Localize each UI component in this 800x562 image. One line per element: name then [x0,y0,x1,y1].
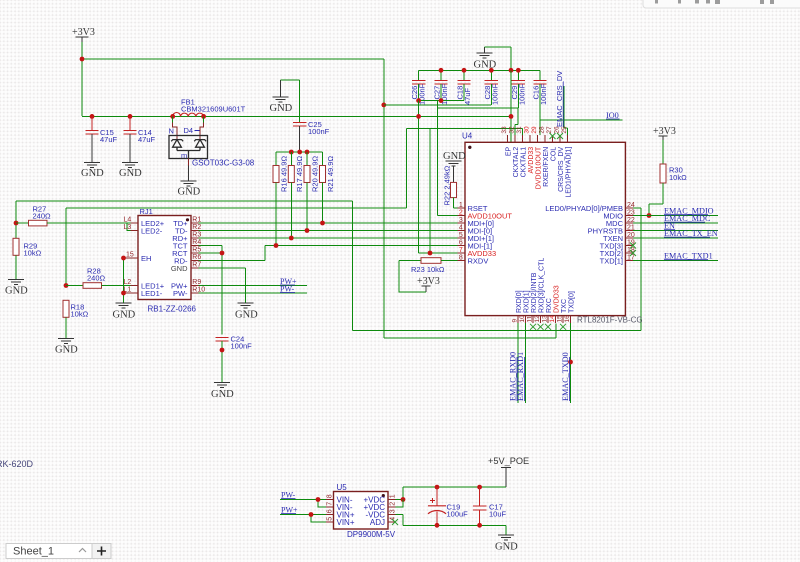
ground GND under RJ1 left [113,303,136,321]
U4 pin 7 AVDD33 [458,247,497,258]
svg-text:47uF: 47uF [100,135,118,144]
node junction cap rail x=511 [509,68,514,73]
svg-text:25: 25 [561,126,568,134]
svg-text:R7: R7 [192,262,201,269]
wire RCT row [199,252,223,254]
U5 pin 1 +VDC [363,494,396,504]
svg-text:EP: EP [505,146,512,156]
node junction C17 bottom [477,523,482,528]
svg-text:32: 32 [509,126,516,134]
node junction C25 bottom [297,150,302,155]
svg-text:11: 11 [527,315,534,322]
U5 pin 6 VIN+ [326,509,355,519]
capacitor C17 10uF [473,487,507,525]
wire column C26 to AVDD33 row [419,101,430,253]
svg-text:CBM321609U601T: CBM321609U601T [181,105,246,114]
svg-text:RXER/FXEN: RXER/FXEN [543,147,550,187]
wire C16 bottom to IO0 line [539,84,541,135]
wire EN row [633,230,718,232]
capacitor C29 [510,70,527,105]
svg-text:5: 5 [327,517,334,521]
svg-text:RXC: RXC [546,298,553,313]
net label EMAC_CRS_DV [555,71,564,127]
U4 pin 6 MDI-[1] [458,239,493,250]
ground GND under C14 [119,163,142,180]
svg-text:CKXTAL1: CKXTAL1 [520,147,527,178]
svg-text:29: 29 [531,126,538,134]
svg-text:U4: U4 [462,132,473,141]
svg-text:8: 8 [459,254,463,261]
svg-text:1: 1 [389,494,396,498]
wire EMAC_MDIO row [633,215,718,217]
svg-text:+5V_POE: +5V_POE [488,456,529,466]
node junction R30 on MDIO [647,213,652,218]
svg-text:6: 6 [459,239,463,246]
wire EMAC_TX_EN row [633,237,718,239]
ground GND under R7 [235,303,258,321]
svg-text:240Ω: 240Ω [87,274,106,283]
capacitor C16 [532,70,549,105]
node junction VIN+ [309,512,314,517]
U4 pin 2 AVDD10OUT [458,209,513,220]
svg-text:GND: GND [171,264,188,273]
svg-text:R3: R3 [192,232,201,239]
node junction cap rail x=441 [439,68,444,73]
svg-text:COL: COL [550,147,557,162]
wire R7 to ground [199,268,246,303]
svg-text:R9: R9 [192,279,201,286]
svg-text:1: 1 [459,202,463,209]
U4 pin 20 TXEN [603,232,635,243]
svg-text:DVDD10OUT: DVDD10OUT [535,146,542,189]
node junction cap rail x=491.3 [489,68,494,73]
net label PW- [280,285,295,294]
capacitor C19 100uF polar [428,487,468,525]
wire FB1 right down to D4 [203,116,205,122]
svg-text:RXD[3]/CLK_CTL: RXD[3]/CLK_CTL [538,258,545,313]
svg-text:R6: R6 [192,254,201,261]
svg-text:47uF: 47uF [138,135,156,144]
svg-text:RJ1: RJ1 [140,207,153,216]
resistor R17 49.9 ohm [288,152,304,238]
wire VIN+ tie [311,515,326,523]
svg-text:14: 14 [549,315,556,323]
svg-text:CRS/CRS_DV: CRS/CRS_DV [558,146,565,191]
svg-text:7: 7 [459,247,463,254]
wire TCT to C24 column [199,246,223,335]
U5 pin 8 VIN- [326,494,353,504]
no-connect X pin26 CRS_DV [557,133,563,139]
wire pin32 drop [515,108,518,143]
svg-text:N: N [169,127,174,136]
capacitor C26 [410,70,427,105]
U4 pin 12 RXD[3]/CLK_CTL [534,258,545,323]
svg-text:7: 7 [327,502,334,506]
svg-text:GND: GND [178,187,201,198]
wire C28 bottom to AVDD feed [490,84,492,105]
resistor R21 49.9 ohm [320,152,336,223]
U4 pin 21 PHYRSTB [588,224,635,235]
toolbar panel top right [643,0,800,8]
svg-text:GND: GND [113,310,136,321]
RJ1 right pin R10 PW- [173,287,205,298]
svg-text:LED1-: LED1- [141,289,163,298]
svg-text:EMAC_RXD1: EMAC_RXD1 [516,352,525,401]
svg-text:100nF: 100nF [231,342,253,351]
wire AVDD feed y=104.9 [384,104,491,106]
resistor R16 49.9 ohm [273,152,289,246]
wire +VDC tie pin2 [396,500,404,508]
node junction pin1-2 tie [401,497,406,502]
U5 pin 5 VIN+ [326,517,355,527]
svg-text:CKXTAL2: CKXTAL2 [513,147,520,178]
U4 pin 25 LED1/PHYAD[1] [561,126,572,198]
no-connect X pin13 [545,324,551,330]
svg-text:DVDD33: DVDD33 [553,285,560,313]
wire TXD0 down [570,323,572,403]
wire LED1 long rail y=206.5 [66,208,556,338]
svg-text:4: 4 [459,224,463,231]
svg-text:Sheet_1: Sheet_1 [13,546,54,558]
svg-text:RXD[1]: RXD[1] [523,290,530,313]
RJ1 left pin L2 LED1+ [124,279,165,290]
node junction RCT C24 [220,251,225,256]
svg-text:13: 13 [542,315,549,323]
wire +VDC rail top [396,487,507,499]
resistor R27 240 ohm [14,201,131,238]
U4 pin 15 TXC [557,299,568,323]
no-connect X pin19 TXD3 [630,243,636,249]
svg-text:9: 9 [512,319,519,323]
svg-text:100uF: 100uF [447,510,469,519]
svg-text:RXDV: RXDV [468,256,489,265]
svg-text:12: 12 [534,315,541,323]
svg-text:RTL8201F-VB-CG: RTL8201F-VB-CG [577,316,643,325]
node junction AVDD feed [381,103,386,108]
net label EMAC_MDC [664,214,711,223]
svg-text:15: 15 [557,315,564,323]
svg-text:10kΩ: 10kΩ [669,173,687,182]
node junction R20 bottom on TD- [305,228,310,233]
svg-text:10kΩ: 10kΩ [24,249,42,258]
svg-text:16: 16 [564,315,571,323]
capacitor C28 [483,70,500,105]
svg-text:GND: GND [119,168,142,179]
pin lead D4 right [200,122,204,139]
resistor R23 10k [399,258,458,274]
svg-text:GND: GND [270,103,293,114]
node junction R16 bottom on MDI row [274,243,279,248]
svg-text:R2: R2 [192,224,201,231]
wire +3V3 rail to right [82,58,384,60]
node junction TXD0 [568,360,573,365]
U4 pin 23 MDIO [603,209,634,220]
svg-text:R4: R4 [192,239,201,246]
svg-text:+3V3: +3V3 [72,27,95,38]
node junction C26 bottom [416,98,421,103]
svg-text:2: 2 [459,209,463,216]
wire main rail y=116.4 [82,115,511,117]
wire EMAC_TXD1 row [633,260,718,262]
svg-text:AVDD33: AVDD33 [528,147,535,174]
U4 pin 27 COL [546,126,557,161]
ground GND under +5V rail [495,535,518,553]
capacitor C14 [124,116,156,162]
wire IO0 net [540,119,623,121]
svg-text:R16 49.9Ω: R16 49.9Ω [280,156,289,192]
node junction at (82,59) [80,57,85,62]
resistor R22 2.49k [443,165,458,208]
RJ1 right pin R2 TD- [175,224,201,235]
connector RJ1 RB1-ZZ-0266 [138,207,197,314]
U4 pin 10 RXD[1] [519,290,530,323]
ground GND above R22 [443,151,466,166]
wire resistor-bank top rail y=152 [276,151,323,153]
net label PW+ [280,277,297,286]
wire RD+ row [199,237,458,239]
U4 pin 19 TXD[3] [600,239,635,250]
svg-text:10kΩ: 10kΩ [71,310,89,319]
capacitor C18 [456,70,473,105]
RJ1 left pin 15 EH [124,252,152,263]
RJ1 right pin R9 PW+ [171,279,201,290]
svg-text:240Ω: 240Ω [33,212,52,221]
node junction C19 top [435,485,440,490]
svg-text:GND: GND [55,345,78,356]
svg-text:24: 24 [627,202,635,209]
wire column x430 to AVDD33 [430,128,458,253]
net label EMAC_TX_EN [664,229,718,238]
svg-text:TXD[0]: TXD[0] [568,291,575,313]
U4 pin 29 DVDD10OUT [531,126,542,189]
svg-text:EH: EH [141,254,151,263]
RJ1 left pin L4 LED2+ [124,217,165,228]
wire PW- stub [199,292,308,294]
svg-text:RB1-ZZ-0266: RB1-ZZ-0266 [148,305,197,314]
node junction EP rail116 [509,114,514,119]
wire L4-L3 tie [127,223,138,231]
RJ1 right pin R5 RCT [172,247,201,258]
svg-text:R23 10kΩ: R23 10kΩ [411,265,445,274]
U5 pin 2 +VDC [363,502,396,512]
wire EH and LED1- to ground [123,258,125,303]
svg-text:2: 2 [389,502,396,506]
power flag +5V_POE [488,456,529,487]
ferrite bead FB1 [170,98,245,119]
svg-text:27: 27 [546,126,553,134]
ground GND top center [474,47,497,71]
svg-text:10uF: 10uF [489,510,507,519]
node junction R17 top [289,150,294,155]
svg-text:TXC: TXC [561,299,568,313]
svg-text:R10: R10 [192,287,205,294]
U4 pin 8 RXDV [458,254,489,265]
node junction C15 top [90,114,95,119]
node junction C17 top [477,485,482,490]
svg-text:26: 26 [554,126,561,134]
no-connect X pin27 COL [550,133,556,139]
node junction rail116 x418 [416,114,421,119]
U5 pin 7 VIN- [326,502,353,512]
resistor R28 240 ohm [64,208,138,288]
RJ1 right pin R1 TD+ [173,217,201,228]
wire PW- into U5 [280,499,326,501]
resistor R18 10k [63,300,89,338]
svg-text:R20 49.9Ω: R20 49.9Ω [311,156,320,192]
svg-text:GND: GND [495,542,518,553]
svg-text:R17 49.9Ω: R17 49.9Ω [295,156,304,192]
resistor R30 10k [649,140,687,216]
net label EMAC_MDIO [664,207,714,216]
svg-text:100nF: 100nF [308,127,330,136]
RJ1 right pin R4 TCT [173,239,201,250]
IC U5 DP9900M-5V [334,483,396,539]
wire PW+ into U5 [280,514,326,516]
wire cap bottoms rail y=100.6 [419,84,464,101]
svg-text:VIN+: VIN+ [337,518,355,527]
wire TD+ row [199,222,458,224]
U4 pin 31 CKXTAL1 [516,126,527,177]
capacitor C25 [293,120,330,152]
net label PW- at U5 [281,491,296,500]
svg-text:L3: L3 [124,224,132,231]
resistor R29 10k [13,238,42,279]
power flag +3V3 right [653,126,676,140]
ground GND under R29 [5,279,28,296]
pin lead D4 left [173,122,177,139]
ground GND under D4 [178,181,201,198]
capacitor C15 [86,116,118,162]
node junction VIN- [316,497,321,502]
wire +3V3 stem down [81,42,83,116]
node junction cap rail x=464 [462,68,467,73]
wire TD- row [199,230,458,232]
ground GND under R18 [55,338,78,355]
node junction cap rail x=518.3 [516,68,521,73]
wire pin31 feed y=128.3 [406,128,522,208]
wire GND to cap rail [485,47,512,70]
wire EMAC_CRS_DV vertical [564,86,568,135]
U4 pin 4 MDI-[0] [458,224,493,235]
wire RD- step up to MDI pin row [199,246,458,261]
node junction C14 top [128,114,133,119]
node junction R21 bottom on TD+ [320,221,325,226]
wire LED0 long rail y=200.5 [16,201,641,331]
svg-text:EMAC_CRS_DV: EMAC_CRS_DV [555,71,564,127]
U4 pin 13 RXC [542,298,553,323]
net label IO0 [606,111,620,120]
net label EMAC_TXD0 [561,352,570,401]
RJ1 left pin L1 LED1- [124,287,163,298]
svg-text:L2: L2 [124,279,132,286]
no-connect X pin18 TXD2 [630,250,636,256]
svg-text:DP9900M-5V: DP9900M-5V [347,530,396,539]
svg-text:D4: D4 [184,126,194,135]
wire 3v3 drop x=383.8 down to DVDD33 feed [383,59,385,338]
wire PW+ stub [199,285,308,287]
capacitor C24 [215,335,252,383]
net label EMAC_RXD1 [516,352,525,401]
node junction R17 bottom on RD+ [289,236,294,241]
wire FB1 left down to D4 [172,116,174,122]
RJ1 right pin R7 GND [171,262,202,273]
resistor R20 49.9 ohm [304,152,320,231]
U4 pin 1 RSET [458,202,488,213]
svg-text:R5: R5 [192,247,201,254]
ground GND under C24 [211,383,234,401]
wire GND to C25 top [281,80,300,123]
ground GND under C15 [81,163,104,180]
svg-text:8: 8 [327,494,334,498]
svg-text:6: 6 [327,509,334,513]
net label EMAC_RXD0 [509,352,518,401]
wire -VDC to gnd rail [396,515,404,526]
svg-text:GSOT03C-G3-08: GSOT03C-G3-08 [192,159,255,168]
svg-text:LED1/PHYAD[1]: LED1/PHYAD[1] [565,147,572,198]
svg-text:33: 33 [501,126,508,134]
svg-text:10: 10 [519,315,526,323]
no-connect X pin15 [560,324,566,330]
net label EMAC_TXD1 [664,252,713,261]
U4 pin 32 CKXTAL2 [509,126,520,177]
svg-text:PW-: PW- [173,289,188,298]
svg-text:30: 30 [524,126,531,134]
U4 pin 26 CRS/CRS_DV [554,126,565,192]
svg-text:3: 3 [389,509,396,513]
U4 pin 3 MDI+[0] [458,217,494,228]
wire D4 to ground [188,159,190,166]
no-connect X ADJ [392,519,398,525]
diode array D4 GSOT03C-G3-08 [169,126,255,168]
svg-text:GND: GND [235,310,258,321]
node junction C27 bottom [439,98,444,103]
U4 pin 22 MDC [606,217,635,228]
svg-text:ADJ: ADJ [370,518,385,527]
net label EN [664,222,675,231]
U4 pin 33 EP [501,126,512,156]
sheet tab Sheet_1 [6,544,111,559]
wire VIN- tie [318,500,326,508]
svg-text:U5: U5 [337,483,348,492]
svg-text:GND: GND [443,151,466,162]
wire gnd rail bottom [403,525,506,535]
U4 pin 28 RXER/FXEN [539,126,550,187]
wire column x437 to pin2 [437,108,457,216]
no-connect X pin12 [538,324,544,330]
wire pin25 feed y=131.5 [559,119,561,121]
wire RXD1 down [525,323,527,403]
svg-text:R1: R1 [192,217,201,224]
U4 pin 11 RXD[2]/INTB [527,272,538,323]
svg-text:L4: L4 [124,217,132,224]
svg-text:GND: GND [81,168,104,179]
power flag +3V3 under R23 [417,276,440,292]
U4 pin 18 TXD[2] [600,247,635,258]
node junction R20 top [305,150,310,155]
svg-text:5: 5 [459,232,463,239]
svg-text:RXD[0]: RXD[0] [516,290,523,313]
svg-text:R21 49.9Ω: R21 49.9Ω [326,156,335,192]
wire C29 bottom down [437,84,518,108]
wire R23 to +3V3 [399,261,426,293]
wire cap bank top rail [419,69,540,71]
svg-text:GND: GND [211,389,234,400]
RJ1 left pin L3 LED2- [124,224,163,235]
svg-text:28: 28 [539,126,546,134]
svg-text:RXD[2]/INTB: RXD[2]/INTB [531,272,538,313]
power flag +3V3 top left [72,27,95,42]
RJ1 right pin R6 RD- [174,254,201,265]
